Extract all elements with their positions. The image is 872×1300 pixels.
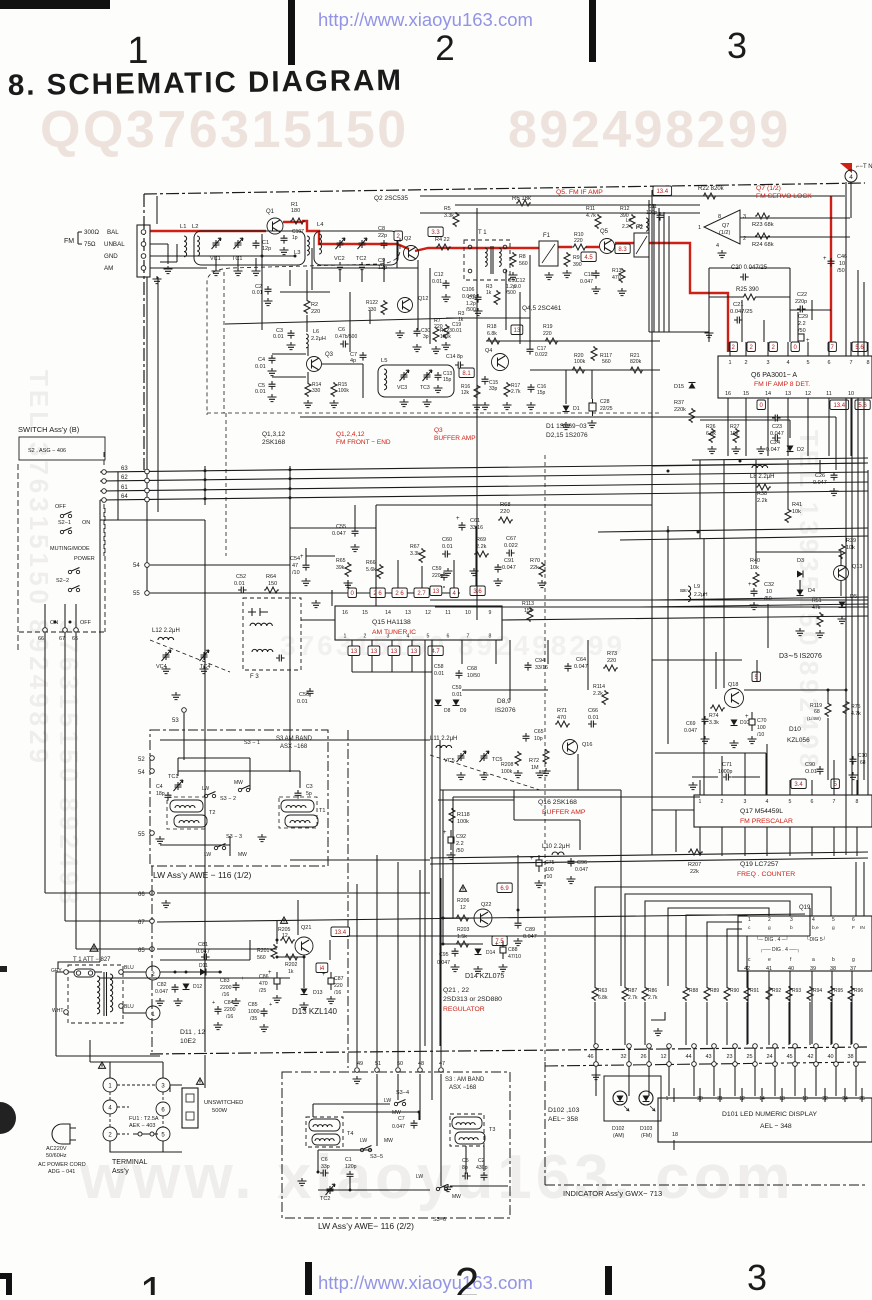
svg-text:0.01: 0.01 bbox=[434, 671, 444, 677]
svg-text:47: 47 bbox=[292, 563, 298, 569]
svg-text:R9: R9 bbox=[573, 255, 580, 261]
svg-text:a: a bbox=[812, 957, 815, 963]
svg-text:C75: C75 bbox=[545, 860, 555, 866]
svg-text:3.3k: 3.3k bbox=[709, 720, 719, 726]
svg-text:MUTING/MODE: MUTING/MODE bbox=[50, 546, 90, 552]
svg-text:O.01: O.01 bbox=[805, 769, 817, 775]
svg-text:2SK168: 2SK168 bbox=[262, 439, 286, 446]
svg-text:/50: /50 bbox=[456, 848, 464, 854]
svg-text:LW Ass’y AWE − 116 (1/2): LW Ass’y AWE − 116 (1/2) bbox=[153, 870, 252, 880]
svg-text:R26: R26 bbox=[706, 424, 716, 430]
svg-text:40: 40 bbox=[827, 1054, 833, 1060]
svg-text:55: 55 bbox=[138, 832, 145, 838]
svg-text:5: 5 bbox=[832, 917, 835, 923]
svg-text:48: 48 bbox=[418, 1061, 424, 1067]
svg-text:FU1 : T2.5A: FU1 : T2.5A bbox=[129, 1116, 159, 1122]
svg-text:2: 2 bbox=[364, 634, 367, 640]
svg-text:33p: 33p bbox=[321, 1164, 330, 1170]
svg-text:+: + bbox=[300, 554, 304, 560]
svg-text:D102: D102 bbox=[612, 1126, 625, 1132]
svg-text:T1: T1 bbox=[319, 808, 325, 814]
svg-text:4: 4 bbox=[716, 243, 719, 249]
svg-text:T4: T4 bbox=[347, 1131, 353, 1137]
svg-text:VC2: VC2 bbox=[334, 256, 345, 262]
svg-text:9: 9 bbox=[489, 610, 492, 616]
svg-text:1: 1 bbox=[666, 1096, 669, 1102]
svg-text:Q5: Q5 bbox=[600, 229, 609, 235]
svg-text:FM PRESCALAR: FM PRESCALAR bbox=[740, 818, 793, 825]
svg-text:63: 63 bbox=[121, 466, 128, 472]
svg-text:2.7: 2.7 bbox=[417, 591, 426, 597]
svg-text:C29: C29 bbox=[798, 314, 808, 320]
svg-text:2: 2 bbox=[108, 1133, 112, 1139]
svg-text:54: 54 bbox=[138, 770, 145, 776]
svg-text:22p: 22p bbox=[378, 233, 387, 239]
svg-text:TC1: TC1 bbox=[168, 774, 178, 780]
svg-text:R72: R72 bbox=[529, 758, 539, 764]
svg-text:39: 39 bbox=[810, 966, 816, 972]
svg-text:/10: /10 bbox=[757, 732, 764, 738]
svg-text:+: + bbox=[443, 830, 447, 836]
svg-text:470: 470 bbox=[259, 981, 268, 987]
svg-text:/50: /50 bbox=[798, 328, 806, 334]
svg-text:f: f bbox=[790, 957, 792, 963]
svg-text:0.047: 0.047 bbox=[580, 279, 593, 285]
svg-text:8. SCHEMATIC DIAGRAM: 8. SCHEMATIC DIAGRAM bbox=[8, 64, 404, 102]
svg-text:2.7k: 2.7k bbox=[511, 389, 521, 395]
svg-text:R4 22: R4 22 bbox=[435, 237, 450, 243]
svg-text:4: 4 bbox=[849, 174, 853, 181]
svg-text:22k: 22k bbox=[690, 869, 699, 875]
svg-text:UNSWITCHED: UNSWITCHED bbox=[204, 1100, 243, 1106]
svg-text:R90: R90 bbox=[730, 988, 739, 994]
svg-text:T 1 ATT − 827: T 1 ATT − 827 bbox=[73, 957, 111, 963]
svg-text:R63: R63 bbox=[598, 988, 607, 994]
svg-text:R73: R73 bbox=[607, 651, 617, 657]
svg-text:Q6 PA3001− A: Q6 PA3001− A bbox=[751, 372, 797, 379]
svg-text:Q12: Q12 bbox=[418, 296, 428, 302]
svg-text:R40: R40 bbox=[750, 558, 760, 564]
svg-text:45: 45 bbox=[786, 1054, 792, 1060]
svg-text:AM TUNER IC: AM TUNER IC bbox=[372, 629, 416, 636]
svg-text:2.7k: 2.7k bbox=[648, 995, 658, 1001]
svg-text:1: 1 bbox=[748, 917, 751, 923]
svg-text:10k: 10k bbox=[792, 509, 801, 515]
svg-text:b: b bbox=[832, 957, 835, 963]
svg-text:C91: C91 bbox=[504, 558, 514, 564]
svg-text:Q2: Q2 bbox=[404, 236, 411, 242]
svg-text:R6 18k: R6 18k bbox=[512, 196, 532, 202]
svg-text:R19: R19 bbox=[543, 324, 553, 330]
svg-text:C81: C81 bbox=[198, 942, 208, 948]
svg-text:0.01: 0.01 bbox=[255, 389, 266, 395]
svg-text:+: + bbox=[745, 714, 749, 720]
svg-text:8: 8 bbox=[489, 634, 492, 640]
svg-text:C65: C65 bbox=[534, 729, 544, 735]
svg-text:TC3: TC3 bbox=[420, 385, 430, 391]
svg-text:/16: /16 bbox=[226, 1014, 233, 1020]
svg-text:AC220V: AC220V bbox=[46, 1146, 67, 1152]
svg-text:15: 15 bbox=[743, 391, 749, 397]
svg-text:+: + bbox=[212, 1000, 215, 1006]
svg-text:Q3: Q3 bbox=[325, 352, 334, 358]
svg-text:D11: D11 bbox=[199, 963, 208, 969]
svg-text:33p: 33p bbox=[489, 386, 498, 392]
svg-text:68: 68 bbox=[814, 709, 820, 715]
svg-text:13: 13 bbox=[391, 649, 398, 655]
svg-text:http://www.xiaoyu163.com: http://www.xiaoyu163.com bbox=[318, 1272, 533, 1293]
svg-text:0.0: 0.0 bbox=[514, 284, 521, 290]
svg-text:C32: C32 bbox=[764, 582, 774, 588]
svg-text:10: 10 bbox=[465, 610, 471, 616]
svg-text:R27: R27 bbox=[730, 424, 740, 430]
svg-text:5.6: 5.6 bbox=[855, 345, 864, 351]
svg-text:4.5: 4.5 bbox=[584, 255, 593, 261]
svg-text:C5: C5 bbox=[462, 1158, 469, 1164]
svg-text:KZL056: KZL056 bbox=[787, 737, 810, 744]
svg-text:1000p: 1000p bbox=[718, 769, 733, 775]
svg-text:MW: MW bbox=[238, 852, 247, 858]
svg-text:2200: 2200 bbox=[224, 1007, 236, 1013]
svg-text:BLU: BLU bbox=[124, 965, 134, 971]
svg-text:1M: 1M bbox=[531, 765, 539, 771]
svg-text:C6: C6 bbox=[321, 1157, 328, 1163]
svg-text:D14: D14 bbox=[486, 950, 495, 956]
svg-text:40: 40 bbox=[788, 966, 794, 972]
svg-text:55: 55 bbox=[133, 591, 140, 597]
svg-text:C71: C71 bbox=[722, 762, 732, 768]
svg-text:ASX −168: ASX −168 bbox=[449, 1085, 477, 1091]
svg-text:1: 1 bbox=[140, 1268, 164, 1295]
svg-text:T3: T3 bbox=[489, 1127, 495, 1133]
svg-text:0.01: 0.01 bbox=[297, 699, 308, 705]
svg-text:560: 560 bbox=[602, 359, 611, 365]
svg-text:7: 7 bbox=[833, 799, 836, 805]
svg-text:L1: L1 bbox=[180, 224, 186, 230]
svg-text:52: 52 bbox=[138, 757, 145, 763]
svg-text:+: + bbox=[268, 970, 272, 976]
svg-text:D2,15 1S2076: D2,15 1S2076 bbox=[546, 432, 588, 439]
svg-text:D10: D10 bbox=[789, 726, 801, 733]
svg-text:OFF: OFF bbox=[55, 504, 67, 510]
svg-text:Q7 (1/2): Q7 (1/2) bbox=[756, 185, 781, 192]
svg-text:C8: C8 bbox=[378, 226, 385, 232]
svg-text:R70: R70 bbox=[530, 558, 540, 564]
svg-text:ON: ON bbox=[82, 520, 90, 526]
svg-text:0.047: 0.047 bbox=[332, 531, 346, 537]
svg-text:12: 12 bbox=[805, 391, 811, 397]
svg-text:65: 65 bbox=[138, 948, 145, 954]
svg-text:R113: R113 bbox=[522, 601, 534, 607]
svg-text:TC1: TC1 bbox=[232, 256, 242, 262]
svg-text:R89: R89 bbox=[710, 988, 719, 994]
svg-text:S3 − 1: S3 − 1 bbox=[244, 740, 260, 746]
svg-text:220: 220 bbox=[434, 324, 443, 330]
svg-text:16: 16 bbox=[725, 391, 731, 397]
svg-text:S2−1: S2−1 bbox=[58, 520, 71, 526]
svg-text:Q5. FM IF AMP: Q5. FM IF AMP bbox=[556, 189, 603, 196]
svg-text:D13 KZL140: D13 KZL140 bbox=[292, 1007, 337, 1016]
svg-text:4.7k: 4.7k bbox=[851, 711, 861, 717]
svg-text:FM: FM bbox=[64, 238, 74, 245]
svg-text:F1: F1 bbox=[543, 233, 551, 239]
svg-text:1p: 1p bbox=[292, 235, 298, 241]
svg-text:T2: T2 bbox=[209, 810, 215, 816]
svg-text:24: 24 bbox=[766, 1054, 772, 1060]
svg-text:C54: C54 bbox=[290, 556, 300, 562]
svg-text:L4: L4 bbox=[317, 222, 324, 228]
svg-text:0.022: 0.022 bbox=[535, 352, 548, 358]
svg-text:3: 3 bbox=[387, 634, 390, 640]
svg-text:0.01: 0.01 bbox=[452, 328, 462, 334]
svg-text:6: 6 bbox=[827, 360, 830, 366]
svg-text:3: 3 bbox=[766, 360, 769, 366]
svg-text:53: 53 bbox=[172, 718, 179, 724]
svg-text:2.2k: 2.2k bbox=[476, 544, 487, 550]
svg-text:8: 8 bbox=[866, 360, 869, 366]
svg-text:F 3: F 3 bbox=[250, 674, 259, 680]
svg-text:R24 68k: R24 68k bbox=[752, 242, 774, 248]
svg-text:1: 1 bbox=[127, 30, 148, 72]
svg-text:51: 51 bbox=[375, 1061, 381, 1067]
svg-text:VC3: VC3 bbox=[397, 385, 407, 391]
svg-text:IS2076: IS2076 bbox=[495, 707, 516, 714]
svg-text:L8 2.2μH: L8 2.2μH bbox=[750, 474, 774, 480]
svg-text:C82: C82 bbox=[157, 982, 167, 988]
svg-text:67: 67 bbox=[59, 636, 65, 642]
svg-text:3p: 3p bbox=[423, 334, 429, 340]
svg-text:C94: C94 bbox=[535, 658, 545, 664]
svg-text:5: 5 bbox=[806, 360, 809, 366]
svg-text:3: 3 bbox=[743, 214, 746, 220]
svg-text:S2 . ASG − 406: S2 . ASG − 406 bbox=[28, 448, 66, 454]
svg-text:OFF: OFF bbox=[80, 620, 92, 626]
svg-text:2 6: 2 6 bbox=[373, 591, 382, 597]
svg-text:64: 64 bbox=[121, 494, 128, 500]
svg-text:4.7: 4.7 bbox=[431, 649, 440, 655]
svg-text:C59: C59 bbox=[452, 685, 462, 691]
svg-text:+: + bbox=[269, 1002, 272, 1008]
svg-text:2200: 2200 bbox=[220, 985, 232, 991]
svg-text:FM SERVO LOCK: FM SERVO LOCK bbox=[756, 193, 812, 200]
svg-text:10E2: 10E2 bbox=[180, 1038, 196, 1045]
svg-text:4: 4 bbox=[812, 917, 815, 923]
svg-text:6: 6 bbox=[852, 917, 855, 923]
svg-text:S3 : AM BAND: S3 : AM BAND bbox=[445, 1077, 485, 1083]
svg-text:1000: 1000 bbox=[248, 1009, 260, 1015]
svg-text:6: 6 bbox=[811, 799, 814, 805]
svg-text:www. xiaoyu163. com: www. xiaoyu163. com bbox=[79, 1143, 795, 1212]
svg-text:c: c bbox=[748, 926, 751, 931]
svg-text:330: 330 bbox=[368, 307, 377, 313]
svg-text:300Ω: 300Ω bbox=[84, 229, 99, 236]
svg-text:12k: 12k bbox=[461, 390, 470, 396]
svg-text:C92: C92 bbox=[456, 834, 466, 840]
svg-text:D8,9: D8,9 bbox=[497, 698, 511, 705]
svg-text:AEK − 403: AEK − 403 bbox=[129, 1123, 155, 1129]
svg-text:+: + bbox=[748, 582, 752, 588]
svg-text:+: + bbox=[241, 976, 244, 982]
svg-text:0.047/25: 0.047/25 bbox=[730, 309, 753, 315]
svg-text:Q19: Q19 bbox=[799, 905, 811, 911]
svg-text:D9: D9 bbox=[460, 708, 467, 714]
svg-text:R95: R95 bbox=[834, 988, 843, 994]
svg-text:/35: /35 bbox=[250, 1016, 257, 1022]
svg-text:49: 49 bbox=[357, 1061, 363, 1067]
svg-text:R96: R96 bbox=[854, 988, 863, 994]
svg-text:C1: C1 bbox=[345, 1157, 352, 1163]
svg-text:10k: 10k bbox=[846, 545, 855, 551]
svg-text:R65: R65 bbox=[336, 558, 346, 564]
svg-text:C87: C87 bbox=[334, 976, 344, 982]
svg-text:R64: R64 bbox=[266, 574, 276, 580]
svg-text:50: 50 bbox=[397, 1061, 403, 1067]
svg-text:L3: L3 bbox=[294, 250, 300, 256]
svg-text:0.047: 0.047 bbox=[196, 949, 210, 955]
svg-text:+: + bbox=[322, 972, 326, 978]
svg-text:2.2μH: 2.2μH bbox=[311, 336, 326, 342]
svg-text:376315150 892498299: 376315150 892498299 bbox=[280, 630, 625, 661]
svg-text:100k: 100k bbox=[574, 359, 586, 365]
svg-text:C55: C55 bbox=[336, 524, 346, 530]
svg-text:C14 8p: C14 8p bbox=[446, 354, 463, 360]
svg-text:S3 − 3: S3 − 3 bbox=[226, 834, 242, 840]
svg-text:BLU: BLU bbox=[124, 1004, 134, 1010]
svg-text:BUFFER AMP: BUFFER AMP bbox=[434, 435, 476, 442]
svg-text:1: 1 bbox=[344, 634, 347, 640]
svg-text:220: 220 bbox=[334, 983, 343, 989]
svg-text:2: 2 bbox=[455, 1259, 479, 1295]
svg-text:4: 4 bbox=[407, 634, 410, 640]
svg-text:C6: C6 bbox=[338, 327, 345, 333]
svg-text:8.1: 8.1 bbox=[462, 371, 471, 377]
svg-text:R41: R41 bbox=[792, 502, 802, 508]
svg-text:LW Ass’y AWE− 116 (2/2): LW Ass’y AWE− 116 (2/2) bbox=[318, 1221, 414, 1231]
svg-text:D12: D12 bbox=[193, 984, 202, 990]
svg-text:13: 13 bbox=[351, 649, 358, 655]
svg-text:C58: C58 bbox=[434, 664, 444, 670]
svg-text:6.8k: 6.8k bbox=[706, 431, 716, 437]
svg-text:11: 11 bbox=[826, 391, 832, 397]
svg-text:Q13: Q13 bbox=[852, 564, 862, 570]
svg-text:13: 13 bbox=[433, 589, 440, 595]
svg-text:0.047: 0.047 bbox=[462, 294, 475, 300]
svg-text:D13: D13 bbox=[313, 990, 323, 996]
svg-text:D4: D4 bbox=[808, 588, 815, 594]
svg-text:3: 3 bbox=[790, 917, 793, 923]
svg-text:13.4: 13.4 bbox=[656, 189, 668, 195]
svg-text:(1/4W): (1/4W) bbox=[807, 716, 821, 721]
svg-text:10: 10 bbox=[766, 589, 772, 595]
svg-text:C61: C61 bbox=[470, 518, 480, 524]
svg-text:6: 6 bbox=[161, 1108, 165, 1114]
svg-text:C10: C10 bbox=[858, 753, 867, 759]
svg-text:0.47b/500: 0.47b/500 bbox=[335, 334, 357, 340]
svg-text:L6: L6 bbox=[313, 329, 319, 335]
svg-text:TERMINAL: TERMINAL bbox=[112, 1159, 148, 1166]
svg-text:0.047: 0.047 bbox=[155, 989, 168, 995]
svg-text:4.7k: 4.7k bbox=[586, 213, 596, 219]
svg-text:R74: R74 bbox=[709, 713, 719, 719]
svg-text:(AM): (AM) bbox=[613, 1133, 625, 1139]
svg-text:┌── DIG . 4 ──┐: ┌── DIG . 4 ──┐ bbox=[760, 947, 800, 953]
svg-text:2.7k: 2.7k bbox=[628, 995, 638, 1001]
svg-text:LW: LW bbox=[202, 786, 209, 792]
svg-text:R8: R8 bbox=[519, 254, 526, 260]
svg-text:47k: 47k bbox=[812, 605, 821, 611]
svg-text:37: 37 bbox=[850, 966, 856, 972]
svg-text:C18: C18 bbox=[584, 272, 594, 278]
svg-text:38: 38 bbox=[830, 966, 836, 972]
svg-text:820k: 820k bbox=[630, 359, 642, 365]
svg-text:INDICATOR Ass’y GWX− 713: INDICATOR Ass’y GWX− 713 bbox=[563, 1189, 662, 1198]
svg-text:220: 220 bbox=[574, 238, 583, 244]
svg-text:1: 1 bbox=[698, 225, 701, 231]
svg-text:1k: 1k bbox=[486, 290, 492, 296]
svg-text:/500: /500 bbox=[506, 290, 516, 296]
svg-text:15: 15 bbox=[362, 610, 368, 616]
svg-text:0.01: 0.01 bbox=[234, 581, 245, 587]
svg-text:R206: R206 bbox=[457, 898, 470, 904]
svg-text:13: 13 bbox=[411, 649, 418, 655]
svg-text:+: + bbox=[823, 256, 827, 262]
svg-text:3: 3 bbox=[747, 1257, 767, 1295]
svg-text:Q17 M54459L: Q17 M54459L bbox=[740, 808, 783, 815]
svg-text:Q4: Q4 bbox=[485, 348, 492, 354]
svg-text:R5: R5 bbox=[444, 206, 451, 212]
svg-text:FM FRONT − END: FM FRONT − END bbox=[336, 439, 391, 446]
svg-text:38: 38 bbox=[847, 1054, 853, 1060]
svg-text:2.2: 2.2 bbox=[798, 321, 806, 327]
svg-text:42: 42 bbox=[807, 1054, 813, 1060]
svg-text:5p: 5p bbox=[306, 791, 312, 797]
svg-text:2.2: 2.2 bbox=[622, 224, 629, 230]
svg-text:R118: R118 bbox=[457, 812, 470, 818]
svg-text:500W: 500W bbox=[212, 1108, 228, 1114]
svg-text:0.01: 0.01 bbox=[252, 290, 263, 296]
svg-text:AEL − 348: AEL − 348 bbox=[760, 1123, 792, 1130]
svg-text:UNBAL: UNBAL bbox=[104, 241, 125, 248]
svg-text:2SD313 or 2SD880: 2SD313 or 2SD880 bbox=[443, 996, 502, 1003]
svg-text:0.047: 0.047 bbox=[813, 480, 827, 486]
svg-text:R87: R87 bbox=[628, 988, 637, 994]
svg-text:BUFFER AMP: BUFFER AMP bbox=[542, 809, 586, 816]
svg-text:43: 43 bbox=[705, 1054, 711, 1060]
svg-text:D3∼5 IS2076: D3∼5 IS2076 bbox=[779, 653, 822, 660]
svg-text:/10: /10 bbox=[292, 570, 300, 576]
svg-text:http://www.xiaoyu163.com: http://www.xiaoyu163.com bbox=[318, 9, 533, 30]
svg-text:12: 12 bbox=[425, 610, 431, 616]
svg-text:10/50: 10/50 bbox=[467, 673, 480, 679]
svg-text:LW: LW bbox=[360, 1138, 367, 1144]
svg-text:100: 100 bbox=[545, 867, 554, 873]
svg-text:0.047: 0.047 bbox=[575, 867, 588, 873]
svg-text:100k: 100k bbox=[501, 769, 513, 775]
svg-text:+: + bbox=[456, 516, 460, 522]
svg-text:16: 16 bbox=[342, 610, 348, 616]
svg-text:376315150 892498: 376315150 892498 bbox=[54, 620, 84, 908]
svg-text:R114: R114 bbox=[593, 684, 605, 690]
svg-text:220p: 220p bbox=[432, 573, 444, 579]
svg-text:10k: 10k bbox=[750, 565, 759, 571]
svg-text:8: 8 bbox=[856, 799, 859, 805]
svg-text:120p: 120p bbox=[345, 1164, 357, 1170]
svg-text:15p: 15p bbox=[443, 377, 452, 383]
svg-text:0.022: 0.022 bbox=[504, 543, 518, 549]
svg-text:D11 , 12: D11 , 12 bbox=[180, 1029, 205, 1036]
svg-text:180: 180 bbox=[291, 208, 300, 214]
svg-text:C68: C68 bbox=[467, 666, 477, 672]
